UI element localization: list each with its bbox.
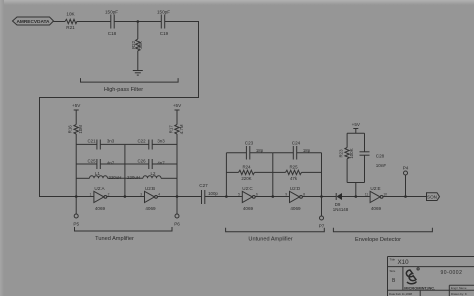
capacitor C19 bbox=[157, 10, 170, 36]
capacitor C24 bbox=[273, 141, 322, 160]
capacitor C23 bbox=[226, 141, 272, 160]
svg-text:Tuned Amplifier: Tuned Amplifier bbox=[95, 236, 134, 242]
diode D9 bbox=[333, 193, 370, 212]
svg-text:U2:B: U2:B bbox=[145, 186, 155, 191]
title block bbox=[388, 257, 474, 296]
svg-text:+5V: +5V bbox=[352, 122, 361, 127]
node IN tag AMRECVDATA bbox=[13, 17, 54, 25]
svg-text:C24: C24 bbox=[292, 141, 301, 146]
op-amp U2:B bbox=[140, 186, 160, 211]
resistor R22 bbox=[131, 22, 143, 71]
node junction bbox=[225, 195, 228, 198]
svg-text:P4: P4 bbox=[403, 166, 409, 171]
Untuned Amplifier bracket bbox=[226, 228, 325, 243]
svg-text:AMRECVDATA: AMRECVDATA bbox=[17, 19, 51, 25]
resistor R25 bbox=[273, 165, 322, 182]
svg-text:18p: 18p bbox=[303, 148, 311, 153]
capacitor C27 bbox=[199, 183, 218, 204]
svg-text:4n7: 4n7 bbox=[157, 161, 165, 166]
wire RC bottom rail bbox=[347, 182, 364, 184]
node junction bbox=[176, 195, 179, 198]
svg-text:150pF: 150pF bbox=[157, 10, 170, 15]
svg-text:47k: 47k bbox=[290, 176, 298, 181]
Envelope Detector bracket bbox=[333, 228, 432, 243]
resistor R21 bbox=[65, 12, 77, 31]
svg-text:R24: R24 bbox=[242, 165, 251, 170]
svg-text:10M: 10M bbox=[78, 125, 83, 134]
wire right rail D bbox=[321, 153, 323, 197]
svg-text:R22: R22 bbox=[131, 40, 136, 49]
+5V supply for R16 bbox=[72, 103, 81, 125]
svg-text:C22: C22 bbox=[137, 139, 146, 144]
resistor R16 bbox=[68, 125, 84, 135]
wire top right corner route bbox=[40, 22, 199, 197]
wire mid rail bbox=[124, 144, 126, 196]
node junction bbox=[272, 195, 275, 198]
svg-text:MICROMINT,INC.: MICROMINT,INC. bbox=[404, 285, 435, 290]
svg-text:4069: 4069 bbox=[145, 206, 156, 211]
inductor L2 bbox=[125, 171, 177, 180]
window edge left bbox=[0, 0, 4, 296]
testpoint P7 bbox=[319, 197, 325, 229]
testpoint P6 bbox=[174, 197, 180, 227]
svg-text:18p: 18p bbox=[256, 148, 264, 153]
svg-text:220uH: 220uH bbox=[127, 175, 140, 180]
svg-text:4069: 4069 bbox=[290, 206, 301, 211]
svg-text:C21: C21 bbox=[87, 139, 96, 144]
svg-text:150pF: 150pF bbox=[105, 10, 118, 15]
capacitor C18 bbox=[105, 10, 118, 36]
wire bbox=[255, 196, 289, 198]
svg-text:220K: 220K bbox=[241, 176, 251, 181]
svg-text:SON: SON bbox=[427, 195, 437, 200]
svg-text:R16: R16 bbox=[68, 125, 73, 134]
wire bbox=[205, 196, 243, 198]
testpoint P5 bbox=[73, 197, 79, 227]
svg-text:R21: R21 bbox=[66, 25, 75, 30]
svg-text:Date:Feb 11,1998: Date:Feb 11,1998 bbox=[389, 292, 412, 296]
wire bbox=[157, 196, 201, 198]
wire bbox=[302, 196, 336, 198]
svg-text:Engr/ Name: Engr/ Name bbox=[451, 286, 467, 290]
resistor R24 bbox=[226, 165, 272, 182]
svg-text:4069: 4069 bbox=[95, 206, 106, 211]
+5V supply envelope bbox=[352, 122, 361, 133]
svg-text:C18: C18 bbox=[108, 31, 117, 36]
node junction bbox=[124, 195, 127, 198]
svg-text:X10: X10 bbox=[398, 259, 410, 266]
svg-text:R17: R17 bbox=[168, 125, 173, 134]
svg-text:L2: L2 bbox=[151, 171, 156, 176]
svg-text:4069: 4069 bbox=[243, 206, 254, 211]
svg-text:4069: 4069 bbox=[371, 206, 382, 211]
op-amp U2:C bbox=[238, 186, 258, 211]
svg-text:C28: C28 bbox=[376, 154, 385, 159]
svg-text:10K: 10K bbox=[66, 12, 75, 17]
wire left rail C bbox=[225, 153, 227, 197]
wire bbox=[114, 21, 161, 23]
svg-text:C19: C19 bbox=[160, 31, 169, 36]
svg-text:L1: L1 bbox=[95, 171, 100, 176]
svg-text:U2:C: U2:C bbox=[242, 186, 253, 191]
svg-text:C23: C23 bbox=[245, 141, 254, 146]
svg-text:P5: P5 bbox=[73, 222, 79, 227]
svg-text:Drawn by: K: Drawn by: K bbox=[451, 292, 467, 296]
svg-text:100p: 100p bbox=[208, 191, 218, 196]
svg-text:C25: C25 bbox=[87, 158, 96, 163]
svg-text:Untuned Amplifier: Untuned Amplifier bbox=[248, 237, 292, 243]
capacitor C26 row bbox=[125, 158, 177, 169]
Tuned Amplifier bracket bbox=[75, 227, 173, 242]
svg-text:R23: R23 bbox=[338, 149, 343, 158]
logo Micromint bbox=[406, 268, 419, 284]
resistor R23 bbox=[338, 133, 354, 182]
resistor R17 bbox=[168, 124, 184, 134]
wire bbox=[107, 196, 145, 198]
svg-text:Envelope Detector: Envelope Detector bbox=[355, 237, 401, 243]
svg-text:33K: 33K bbox=[138, 41, 143, 49]
svg-text:C27: C27 bbox=[199, 183, 208, 188]
svg-text:High-pass Filter: High-pass Filter bbox=[104, 87, 143, 93]
svg-text:3: 3 bbox=[140, 193, 142, 197]
node junction bbox=[355, 195, 358, 198]
node junction bbox=[320, 195, 323, 198]
svg-text:100K: 100K bbox=[349, 148, 354, 158]
wire RC top rail bbox=[347, 132, 364, 134]
ground bbox=[133, 71, 143, 76]
op-amp U2:E bbox=[365, 186, 387, 211]
svg-text:3n3: 3n3 bbox=[157, 139, 165, 144]
node junction bbox=[75, 195, 78, 198]
node junction bbox=[137, 20, 140, 23]
svg-text:1N4148: 1N4148 bbox=[333, 207, 349, 212]
svg-text:C26: C26 bbox=[137, 158, 146, 163]
svg-text:90-0002: 90-0002 bbox=[441, 270, 463, 276]
wire bbox=[383, 196, 427, 198]
capacitor C21 row bbox=[76, 139, 125, 150]
svg-text:Size: Size bbox=[390, 269, 396, 273]
+5V supply for R17 bbox=[173, 103, 182, 125]
svg-text:3n3: 3n3 bbox=[107, 139, 115, 144]
wire bbox=[77, 21, 111, 23]
svg-text:R25: R25 bbox=[289, 165, 298, 170]
capacitor C25 row bbox=[76, 158, 125, 169]
svg-text:4n7: 4n7 bbox=[107, 161, 115, 166]
window edge top bbox=[0, 0, 474, 5]
capacitor C22 row bbox=[125, 139, 177, 150]
High-pass Filter bracket bbox=[81, 78, 179, 93]
svg-text:10nF: 10nF bbox=[376, 163, 387, 168]
wire left rail A bbox=[75, 134, 77, 197]
op-amp U2:D bbox=[285, 186, 305, 211]
node OUT tag SON bbox=[427, 193, 440, 201]
node junction bbox=[404, 195, 407, 198]
svg-text:1: 1 bbox=[90, 193, 92, 197]
capacitor C28 bbox=[360, 133, 387, 182]
svg-text:Title: Title bbox=[390, 258, 396, 262]
svg-text:5: 5 bbox=[238, 193, 240, 197]
svg-text:P6: P6 bbox=[174, 222, 180, 227]
svg-text:9: 9 bbox=[285, 193, 287, 197]
svg-text:U2:E: U2:E bbox=[370, 186, 380, 191]
wire RC stem bbox=[355, 183, 357, 197]
svg-text:U2:D: U2:D bbox=[290, 186, 301, 191]
op-amp U2:A bbox=[90, 186, 110, 211]
wire mid rail CD bbox=[272, 153, 274, 197]
svg-text:P7: P7 bbox=[319, 224, 325, 229]
svg-text:4.7M: 4.7M bbox=[179, 124, 184, 134]
svg-text:U2:A: U2:A bbox=[94, 186, 105, 191]
wire right rail B bbox=[176, 134, 178, 197]
wire bbox=[54, 21, 66, 23]
inductor L1 bbox=[76, 171, 125, 180]
svg-text:220uH: 220uH bbox=[109, 175, 122, 180]
svg-text:+5V: +5V bbox=[72, 103, 81, 108]
svg-text:11: 11 bbox=[365, 193, 369, 197]
testpoint P4 bbox=[403, 166, 409, 197]
svg-text:+5V: +5V bbox=[173, 103, 182, 108]
